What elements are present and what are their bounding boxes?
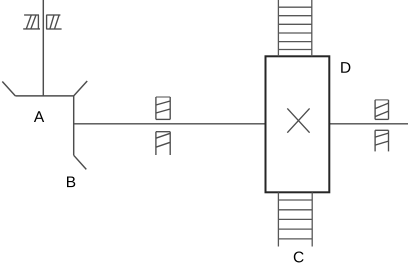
cross mark X inside housing [287,108,309,132]
rack C (top ladder) [278,0,311,56]
bearing (right shaft, lower) [375,130,388,151]
rack C (bottom ladder) [278,192,312,246]
horizontal shaft (right segment) [330,123,409,125]
label A [34,111,44,122]
label B [67,176,75,187]
vertical input shaft [42,0,44,96]
bearing (mid shaft, upper) [156,97,170,119]
label D [341,62,350,73]
housing D (rectangle) [266,56,330,192]
bearing (vertical shaft, left half) [23,15,40,29]
horizontal shaft (left segment) [74,123,266,125]
bevel gear A [2,81,87,96]
bearing (right shaft, upper) [375,100,388,120]
label C [294,251,304,262]
bearing (mid shaft, lower) [156,132,170,155]
bearing (vertical shaft, right half) [46,15,61,29]
bevel gear B [74,96,87,169]
